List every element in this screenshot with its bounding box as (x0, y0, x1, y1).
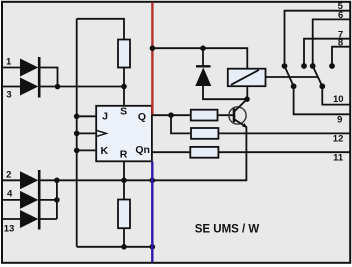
wire pin3 stub (3, 86, 21, 88)
wire R2 bottom (123, 228, 125, 247)
svg-text:13: 13 (4, 223, 15, 234)
wire clock stub (77, 132, 97, 134)
diode D2 (pin 3) (20, 78, 38, 96)
junction at diode pair output (55, 84, 61, 90)
pin 7 label (338, 30, 343, 41)
wire bus top corner to R1 (77, 19, 124, 40)
pin 9 label (337, 114, 342, 125)
wire pin12 (218, 132, 350, 134)
wire bottom rail (77, 246, 153, 248)
label Q (138, 111, 146, 123)
svg-text:S: S (120, 106, 127, 118)
diode D1 (pin 1) (20, 59, 38, 77)
contact pin6 (310, 63, 316, 69)
wire pin11 (218, 151, 350, 153)
wire pin4 diode to bus (39, 199, 57, 201)
wire diode output to S node (39, 86, 124, 88)
junction clock input (74, 131, 80, 137)
wire pin9 (294, 86, 350, 114)
wire J stub (77, 115, 97, 117)
svg-text:10: 10 (333, 94, 344, 105)
relay coil K1 (228, 69, 266, 87)
contact pin8 (329, 63, 335, 69)
pin 13 label (4, 223, 15, 234)
wire pin1 stub (3, 67, 21, 69)
wire pin2 stub (3, 179, 21, 181)
diode D4 (pin 4) (20, 191, 38, 209)
transistor Q1 (229, 99, 247, 128)
junction flyback diode top (200, 45, 206, 51)
svg-text:12: 12 (333, 133, 344, 144)
svg-text:Q: Q (138, 111, 146, 123)
wire top feed from red to relay (152, 48, 247, 68)
wire Q output (152, 114, 191, 116)
junction R drop on rail (121, 178, 127, 184)
junction bottom rail blue (150, 244, 156, 250)
pin 1 label (6, 56, 12, 67)
wire from D1 cathode to node (39, 68, 58, 87)
switch arm S1 (285, 66, 294, 86)
wire Qn output (152, 151, 190, 153)
wire Q to R4 (171, 115, 191, 133)
junction R2 bottom rail (121, 244, 127, 250)
wire pin5 (285, 11, 351, 64)
label R (120, 149, 128, 161)
resistor R4 (middle horizontal) (191, 128, 218, 139)
pin 10 label (333, 94, 344, 105)
wire lower diode bus vertical (56, 180, 58, 219)
svg-text:3: 3 (6, 90, 11, 101)
junction blue line on rail (150, 178, 156, 184)
wire R1 bottom to S input (123, 68, 125, 106)
resistor R5 (bottom horizontal) (190, 147, 218, 158)
clock edge symbol (96, 130, 106, 136)
flyback diode D6 (195, 66, 211, 86)
wire pin13 stub (3, 218, 21, 220)
label Qn (135, 144, 150, 156)
wire relay actuator linkage (266, 76, 319, 78)
diode D3 (pin 2) (20, 171, 38, 189)
svg-text:11: 11 (333, 152, 344, 163)
pin 6 label (338, 10, 343, 21)
wire pin4 stub (3, 199, 21, 201)
wire diode bottom lead (203, 86, 247, 99)
pin 3 label (6, 90, 11, 101)
switch S2 common junction (319, 83, 325, 89)
pin 4 label (7, 188, 13, 199)
wire base (218, 114, 234, 116)
wire pin7 (304, 39, 350, 64)
blue ground line (151, 161, 153, 262)
wire pin8 (332, 47, 350, 64)
junction collector node (244, 96, 250, 102)
label S (120, 106, 127, 118)
cathode bar D3/D4/D5 (38, 170, 41, 230)
wire pin6 (313, 19, 350, 63)
wire R input drop (123, 162, 125, 200)
title SE UMS / W (195, 224, 260, 236)
svg-text:SE UMS / W: SE UMS / W (195, 224, 260, 236)
junction at S drop (121, 84, 127, 90)
svg-text:Qn: Qn (135, 144, 150, 156)
junction Q node (168, 112, 174, 118)
resistor R1 (top vertical) (118, 40, 130, 68)
junction lower bus top (54, 178, 60, 184)
switch S1 common junction (291, 83, 297, 89)
label J (102, 111, 108, 123)
red supply line (151, 2, 153, 115)
junction red feed (150, 45, 156, 51)
svg-text:J: J (102, 111, 108, 123)
pin 5 label (338, 1, 344, 12)
svg-text:1: 1 (6, 56, 12, 67)
svg-text:9: 9 (337, 114, 342, 125)
pin 2 label (6, 169, 11, 180)
switch arm S2 (313, 66, 323, 86)
contact pin7 (301, 63, 307, 69)
wire main left bus (76, 19, 78, 247)
wire pin13 diode to bus (39, 218, 57, 220)
cathode bar D1/D2 (38, 57, 41, 98)
junction K input (74, 148, 80, 154)
pin 12 label (333, 133, 344, 144)
pin 8 label (338, 38, 343, 49)
svg-text:K: K (101, 145, 109, 157)
svg-text:R: R (120, 149, 128, 161)
flip-flop U1 body (96, 106, 152, 162)
label K (101, 145, 109, 157)
resistor R3 (base, top horizontal) (191, 110, 218, 121)
junction pin4 bus (54, 197, 60, 203)
wire diode top lead (202, 48, 204, 66)
resistor R2 (bottom vertical) (118, 200, 130, 229)
wire relay bottom to collector node (246, 86, 248, 99)
pin 11 label (333, 152, 344, 163)
contact pin5 (282, 63, 288, 69)
wire K stub (77, 149, 97, 151)
diode D5 (pin 13) (20, 210, 38, 228)
svg-text:4: 4 (7, 188, 13, 199)
wire ground rail y180 with emitter return (39, 127, 247, 181)
junction J input (74, 114, 80, 120)
svg-text:2: 2 (6, 169, 11, 180)
wire pin10 (322, 86, 350, 104)
